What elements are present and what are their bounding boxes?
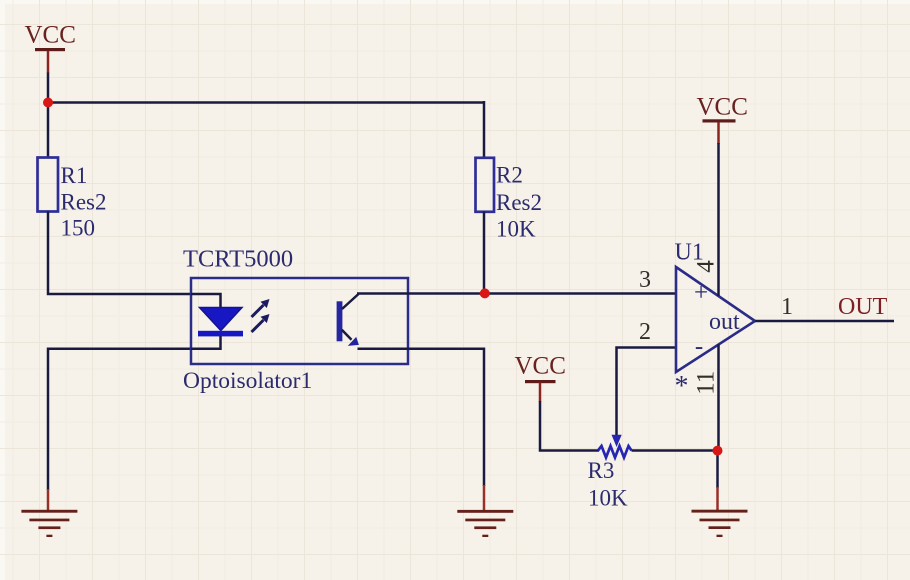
ground (bottom-left) <box>21 510 77 537</box>
svg-text:4: 4 <box>692 260 719 273</box>
resistor R2 <box>476 158 543 242</box>
wire top rail <box>48 101 484 104</box>
wire VCC to node A <box>47 73 50 103</box>
svg-text:Res2: Res2 <box>496 190 542 215</box>
LED light arrow 1 <box>252 299 270 317</box>
power symbol VCC (R3) <box>515 353 566 403</box>
svg-text:3: 3 <box>639 267 651 293</box>
wire optoisolator cathode to ground <box>48 349 191 490</box>
wire collector to node B and op-amp pin 3 <box>357 292 676 295</box>
potentiometer R3 <box>588 435 632 511</box>
svg-text:Optoisolator1: Optoisolator1 <box>183 368 312 394</box>
wire emitter to ground <box>358 349 485 486</box>
svg-text:VCC: VCC <box>515 353 566 380</box>
wire VCC to R3 <box>540 401 599 451</box>
sheet edge highlight <box>0 0 910 4</box>
wire op-amp pin 11 to node C <box>717 345 720 451</box>
svg-text:TCRT5000: TCRT5000 <box>183 246 293 273</box>
ground (bottom-right) <box>692 510 748 537</box>
LED anode lead <box>191 294 221 308</box>
wire ground stub middle (red) <box>483 485 486 511</box>
wire R3 to node C <box>632 449 718 452</box>
wire node A to R1 <box>47 103 50 159</box>
svg-text:R2: R2 <box>496 163 523 188</box>
svg-text:-: - <box>695 333 703 360</box>
resistor R1 <box>38 158 107 241</box>
svg-text:10K: 10K <box>588 486 628 511</box>
power symbol VCC (op-amp) <box>697 94 748 145</box>
ground (bottom-middle) <box>457 510 513 537</box>
svg-text:Res2: Res2 <box>61 190 107 215</box>
optoisolator TCRT5000 box <box>183 246 408 395</box>
LED cathode bar <box>198 331 243 337</box>
svg-text:VCC: VCC <box>25 22 76 49</box>
LED light arrow 2 <box>252 314 270 332</box>
wire op-amp output <box>755 320 894 323</box>
svg-text:OUT: OUT <box>838 294 888 320</box>
wire node C to ground <box>716 451 719 489</box>
svg-text:10K: 10K <box>496 217 536 242</box>
svg-text:R3: R3 <box>588 458 615 483</box>
svg-text:11: 11 <box>692 371 719 395</box>
svg-text:1: 1 <box>781 294 793 320</box>
wire op-amp pin 2 to R3 wiper <box>617 348 677 437</box>
node B junction <box>480 288 490 298</box>
wire rail to R2 <box>483 101 486 158</box>
LED triangle <box>200 308 243 331</box>
svg-text:VCC: VCC <box>697 94 748 121</box>
LED cathode lead <box>191 336 221 349</box>
phototransistor Q (inside optoisolator) <box>337 294 359 346</box>
svg-text:out: out <box>709 309 740 335</box>
svg-text:+: + <box>694 280 708 307</box>
power symbol VCC (top-left) <box>25 22 76 74</box>
node A junction <box>43 98 53 108</box>
svg-text:2: 2 <box>639 319 651 345</box>
op-amp U1 <box>675 240 756 403</box>
wire R1 to optoisolator anode <box>48 212 191 295</box>
node C junction <box>713 446 723 456</box>
wire VCC to op-amp pin 4 and down through pin 11 to node C <box>717 143 720 296</box>
svg-text:R1: R1 <box>61 163 88 188</box>
wire ground stub (red) <box>47 489 50 511</box>
wire ground stub right (red) <box>716 487 719 511</box>
svg-text:*: * <box>675 371 689 402</box>
wire R2 to node B <box>483 212 486 294</box>
svg-text:150: 150 <box>61 216 96 241</box>
